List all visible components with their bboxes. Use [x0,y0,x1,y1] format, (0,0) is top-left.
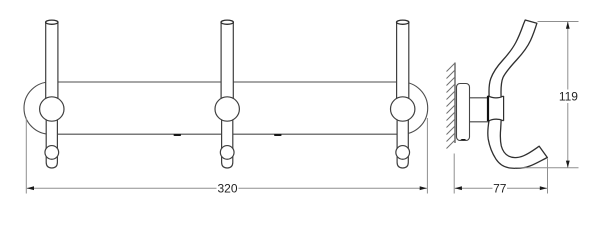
dimension 77: extension lines [454,154,547,194]
dimension 119: arrowheads [566,22,570,29]
hook peg 1 (lower peg with ball, below rail) [45,115,59,168]
hook tube 3 [397,20,409,110]
hook peg 2 [220,115,234,168]
wall hatching [447,63,456,149]
stem between flange and collar [470,98,489,122]
svg-text:320: 320 [217,182,237,196]
hook tube 2 [221,20,233,110]
svg-text:119: 119 [559,89,578,103]
lower hook (side view J-curve tube) [488,119,548,168]
dimension 119: extension lines [515,22,579,168]
hook ball 2 [215,97,239,121]
svg-text:77: 77 [493,182,507,196]
hook ball 1 (on rail) [40,97,64,121]
wall line (side view) [454,63,456,144]
collar (hook holder ring) [488,96,504,121]
set screw tick left (under rail) [174,134,182,136]
hook ball 3 [391,97,415,121]
wall flange (side view) [457,84,470,141]
dimension 320: arrowheads [27,186,34,190]
flange set screw notch [460,139,466,140]
rail (front view pill-shaped bar) [24,82,428,134]
set screw tick right (under rail) [274,134,282,136]
upper hook (side view S-curve tube) [489,20,537,99]
hook peg 3 [396,115,410,168]
hook tube 1 (upper cylinder) [46,20,58,110]
dimension 77: arrowheads [455,186,462,190]
dimension 320: extension lines [26,118,427,194]
